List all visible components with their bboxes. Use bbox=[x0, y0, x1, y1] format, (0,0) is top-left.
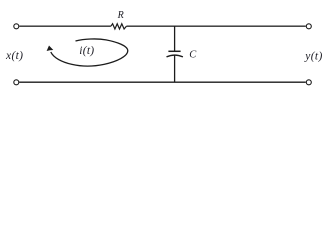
terminal circle top-right bbox=[306, 24, 311, 29]
wire top-left segment bbox=[19, 25, 111, 27]
terminal circle top-left bbox=[14, 24, 19, 29]
svg-text:R: R bbox=[117, 10, 124, 21]
capacitor C1 top plate bbox=[168, 50, 180, 52]
capacitor C1 top lead bbox=[174, 26, 176, 51]
svg-text:i(t): i(t) bbox=[79, 45, 94, 57]
loop current arrow arc bbox=[51, 39, 128, 66]
capacitor C1 curved bottom plate bbox=[167, 55, 183, 57]
terminal circle bottom-left bbox=[14, 80, 19, 85]
svg-text:C: C bbox=[189, 50, 197, 61]
svg-text:y(t): y(t) bbox=[304, 51, 322, 63]
terminal circle bottom-right bbox=[306, 80, 311, 85]
wire top-right segment bbox=[126, 25, 305, 27]
loop current arrowhead bbox=[47, 46, 54, 52]
svg-text:x(t): x(t) bbox=[5, 50, 23, 62]
wire bottom bbox=[19, 81, 306, 83]
capacitor C1 bottom lead bbox=[174, 55, 176, 81]
resistor R1 bbox=[111, 24, 127, 29]
